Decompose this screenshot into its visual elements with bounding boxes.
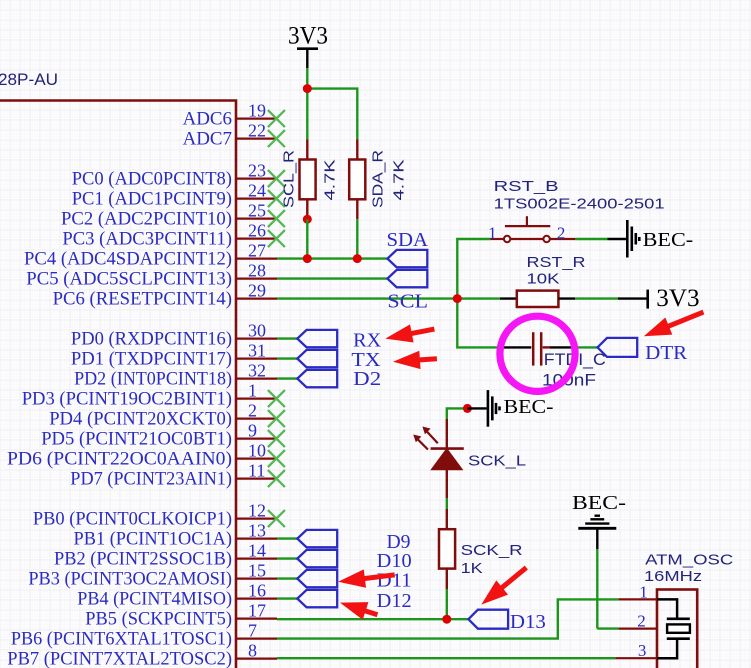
pin 15 PB3 (PCINT3OC2AMOSI) [237,577,277,579]
annotation arrow RX [384,320,437,348]
svg-text:9: 9 [248,421,257,441]
pin 13 PB1 (PCINT1OC1A) [237,537,277,539]
net flag D11 [297,570,337,587]
svg-text:SDA_R: SDA_R [370,150,387,208]
svg-text:2: 2 [637,612,646,631]
pin 14 PB2 (PCINT2SSOC1B) [237,557,277,559]
svg-text:4.7K: 4.7K [322,160,339,201]
svg-text:1: 1 [488,224,497,243]
IC U1 ATMEGA328P-AU body [0,101,236,668]
annotation arrow D11 [337,566,396,591]
svg-text:PB1 (PCINT1OC1A): PB1 (PCINT1OC1A) [74,529,233,550]
wire D9 pin13 [277,537,297,539]
pin 31 PD1 (TXDPCINT17) [237,358,277,360]
svg-text:10K: 10K [527,271,560,288]
no-connect X pin 9 [268,430,285,447]
svg-text:SCL: SCL [387,291,428,313]
svg-text:PD0 (RXDPCINT16): PD0 (RXDPCINT16) [71,329,232,350]
wire SDA_R to SDA net [356,219,358,258]
pin 8 PB7 (PCINT7XTAL2TOSC2) [237,657,277,659]
svg-text:SDA: SDA [387,229,429,251]
pin 10 PD6 (PCINT22OC0AAIN0) [237,458,277,460]
wire SCK_R to D13 [446,589,448,619]
svg-text:19: 19 [248,101,266,121]
no-connect X pin 23 [268,170,285,187]
svg-text:3V3: 3V3 [656,285,699,312]
junction on SDA wire right [353,254,362,263]
svg-text:7: 7 [248,621,257,641]
pin 29 PC6 (RESETPCINT14) [237,298,277,300]
pin 17 PB5 (SCKPCINT5) [237,617,277,619]
svg-text:8: 8 [248,641,257,661]
svg-text:PB3 (PCINT3OC2AMOSI): PB3 (PCINT3OC2AMOSI) [28,569,232,590]
wire D2 pin32 [277,377,297,379]
pin 30 PD0 (RXDPCINT16) [237,338,277,340]
svg-text:RST_B: RST_B [494,178,559,195]
net flag D13 [468,610,508,629]
svg-text:25: 25 [248,201,266,221]
pin 2 PD4 (PCINT20XCKT0) [237,418,277,420]
LED SCK_L [446,419,448,449]
svg-text:1: 1 [248,381,257,401]
svg-text:3V3: 3V3 [288,23,328,50]
svg-text:D13: D13 [510,611,546,633]
pin 28 PC5 (ADC5SCLPCINT13) [237,278,277,280]
annotation arrow D13 [475,560,532,611]
crystal pin 1 lead [619,598,657,600]
wire D11 pin15 [277,577,297,579]
svg-text:3: 3 [638,641,647,660]
svg-text:PD2 (INT0PCINT18): PD2 (INT0PCINT18) [74,369,232,390]
svg-text:12: 12 [248,501,266,521]
svg-text:30: 30 [248,321,266,341]
junction 3V3 branch [303,84,312,93]
svg-text:SCK_L: SCK_L [468,453,526,470]
no-connect X pin 10 [268,450,285,467]
junction RESET/RST [453,294,462,303]
net flag D2 [297,370,337,387]
net flag SDA [387,250,427,267]
svg-text:28: 28 [248,261,266,281]
svg-text:1K: 1K [461,560,483,577]
svg-text:RST_R: RST_R [527,254,586,271]
svg-text:PC3 (ADC3PCINT11): PC3 (ADC3PCINT11) [62,229,232,250]
svg-text:PB0 (PCINT0CLKOICP1): PB0 (PCINT0CLKOICP1) [33,509,232,530]
wire 3V3 to SCL_R [306,68,308,140]
wire SCL pin28 [277,277,387,279]
svg-text:22: 22 [248,121,266,141]
no-connect X pin 2 [268,410,285,427]
net flag RX [297,330,337,347]
wire RST_R to 3V3 [575,297,618,299]
pin 26 PC3 (ADC3PCINT11) [237,238,277,240]
annotation magenta circle around FTDI_C [500,316,575,391]
no-connect X pin 22 [268,130,285,147]
wire ground stub [608,238,627,240]
crystal symbol inner [657,599,677,658]
wire FTDI_C to DTR [577,346,598,348]
pin 12 PB0 (PCINT0CLKOICP1) [237,517,277,519]
svg-text:PB6 (PCINT6XTAL1TOSC1): PB6 (PCINT6XTAL1TOSC1) [11,629,232,650]
wire LED to ground [447,408,468,419]
net flag SCL [387,270,427,287]
wire D10 pin14 [277,557,297,559]
svg-text:29: 29 [248,281,266,301]
wire XTAL2 pin8 [277,657,615,659]
svg-text:PD4 (PCINT20XCKT0): PD4 (PCINT20XCKT0) [49,409,232,430]
svg-text:ATM_OSC: ATM_OSC [645,552,733,569]
wire RX pin30 [277,337,297,339]
svg-text:PD5 (PCINT21OC0BT1): PD5 (PCINT21OC0BT1) [41,429,232,450]
LED light arrows [416,430,438,450]
svg-text:1: 1 [639,583,648,602]
svg-text:13: 13 [248,521,266,541]
svg-text:23: 23 [248,161,266,181]
junction SCL_R bottom [303,215,312,224]
svg-text:14: 14 [248,541,266,561]
wire D12 pin16 [277,597,297,599]
annotation arrow DTR [640,304,707,345]
svg-text:PC1 (ADC1PCINT9): PC1 (ADC1PCINT9) [72,189,232,210]
net flag D9 [297,530,337,547]
svg-text:PD6 (PCINT22OC0AAIN0): PD6 (PCINT22OC0AAIN0) [7,449,232,470]
crystal pin 3 lead [615,657,657,659]
svg-text:4.7K: 4.7K [391,160,408,201]
wire RESET pin29 [277,297,500,299]
no-connect X pin 26 [268,230,285,247]
wire SCL_R to SDA net [306,219,308,258]
svg-text:SCL_R: SCL_R [281,150,298,208]
pin 11 PD7 (PCINT23AIN1) [237,478,277,480]
capacitor FTDI_C 100nF [501,346,531,348]
net flag DTR [598,338,638,357]
wire LED to SCK_R [446,498,448,509]
svg-text:PB7 (PCINT7XTAL2TOSC2): PB7 (PCINT7XTAL2TOSC2) [7,649,232,668]
svg-text:PC6 (RESETPCINT14): PC6 (RESETPCINT14) [53,289,232,310]
pin 7 PB6 (PCINT6XTAL1TOSC1) [237,637,277,639]
svg-text:1TS002E-2400-2501: 1TS002E-2400-2501 [494,195,665,212]
svg-text:26: 26 [248,221,266,241]
svg-text:31: 31 [248,341,266,361]
svg-text:32: 32 [248,361,266,381]
pin 27 PC4 (ADC4SDAPCINT12) [237,258,277,260]
wire ground stub 2 [467,407,486,409]
no-connect X pin 19 [268,110,285,127]
svg-text:ADC7: ADC7 [183,129,232,150]
svg-text:24: 24 [248,181,266,201]
svg-text:PC5 (ADC5SCLPCINT13): PC5 (ADC5SCLPCINT13) [26,269,232,290]
pin 16 PB4 (PCINT4MISO) [237,597,277,599]
annotation arrow TX [392,350,437,372]
net flag TX [297,350,337,367]
no-connect X pin 12 [268,510,285,527]
svg-text:PB5 (SCKPCINT5): PB5 (SCKPCINT5) [85,609,232,630]
no-connect X pin 24 [268,190,285,207]
svg-text:BEC-: BEC- [572,492,626,514]
svg-text:PB2 (PCINT2SSOC1B): PB2 (PCINT2SSOC1B) [54,549,232,570]
svg-text:27: 27 [248,241,266,261]
no-connect X pin 1 [268,390,285,407]
svg-text:PB4 (PCINT4MISO): PB4 (PCINT4MISO) [77,589,232,610]
wire XTAL1 pin7 [277,599,619,638]
pushbutton RST_B 1TS002E-2400-2501 [490,238,504,240]
svg-text:11: 11 [248,461,265,481]
svg-text:28P-AU: 28P-AU [0,70,58,89]
pin 25 PC2 (ADC2PCINT10) [237,218,277,220]
svg-text:10: 10 [248,441,266,461]
pin 32 PD2 (INT0PCINT18) [237,378,277,380]
pin 1 PD3 (PCINT19OC2BINT1) [237,398,277,400]
svg-text:ADC6: ADC6 [183,109,232,130]
annotation arrow D12 [337,594,380,624]
ground BEC- right of button [626,220,629,258]
svg-text:15: 15 [248,561,266,581]
no-connect X pin 11 [268,470,285,487]
ground BEC- at LED [487,390,490,427]
pin 23 PC0 (ADC0PCINT8) [237,178,277,180]
pin 9 PD5 (PCINT21OC0BT1) [237,438,277,440]
svg-text:2: 2 [248,401,257,421]
wire RST net vertical [457,239,499,347]
no-connect X pin 25 [268,210,285,227]
svg-text:DTR: DTR [645,342,688,364]
svg-text:2: 2 [557,224,566,243]
resistor SCL_R 4.7K [306,140,308,160]
pin 24 PC1 (ADC1PCINT9) [237,198,277,200]
resistor SDA_R 4.7K [356,140,358,160]
net flag D12 [297,590,337,607]
pin 22 ADC7 [237,138,277,140]
svg-text:16: 16 [248,581,266,601]
wire TX pin31 [277,357,297,359]
svg-text:16MHz: 16MHz [644,568,702,585]
svg-text:PD1 (TXDPCINT17): PD1 (TXDPCINT17) [71,349,232,370]
svg-text:D12: D12 [377,590,412,612]
power 3V3 right [618,297,648,299]
resistor RST_R 10K [500,297,517,299]
svg-text:BEC-: BEC- [504,396,554,418]
svg-text:BEC-: BEC- [643,229,694,251]
svg-text:PC2 (ADC2PCINT10): PC2 (ADC2PCINT10) [61,209,232,230]
svg-text:PD7 (PCINT23AIN1): PD7 (PCINT23AIN1) [70,469,232,490]
crystal pin 2 lead [619,627,657,629]
junction on SDA wire [303,254,312,263]
svg-text:SCK_R: SCK_R [461,542,523,559]
wire SDA pin27 [277,257,387,259]
svg-text:PD3 (PCINT19OC2BINT1): PD3 (PCINT19OC2BINT1) [22,389,232,410]
junction D13 wire [442,615,451,624]
wire D13 pin17 [277,618,468,620]
wire 3V3 branch [307,89,357,140]
junction LED ground [463,404,472,413]
net flag D10 [297,550,337,567]
wire ground to crystal pin2 [596,549,598,629]
pin 19 ADC6 [237,117,277,119]
wire RST_B to ground [575,238,607,240]
svg-text:D2: D2 [353,368,381,390]
svg-text:PC0 (ADC0PCINT8): PC0 (ADC0PCINT8) [72,169,232,190]
svg-text:17: 17 [248,601,266,621]
svg-text:PC4 (ADC4SDAPCINT12): PC4 (ADC4SDAPCINT12) [24,249,232,270]
